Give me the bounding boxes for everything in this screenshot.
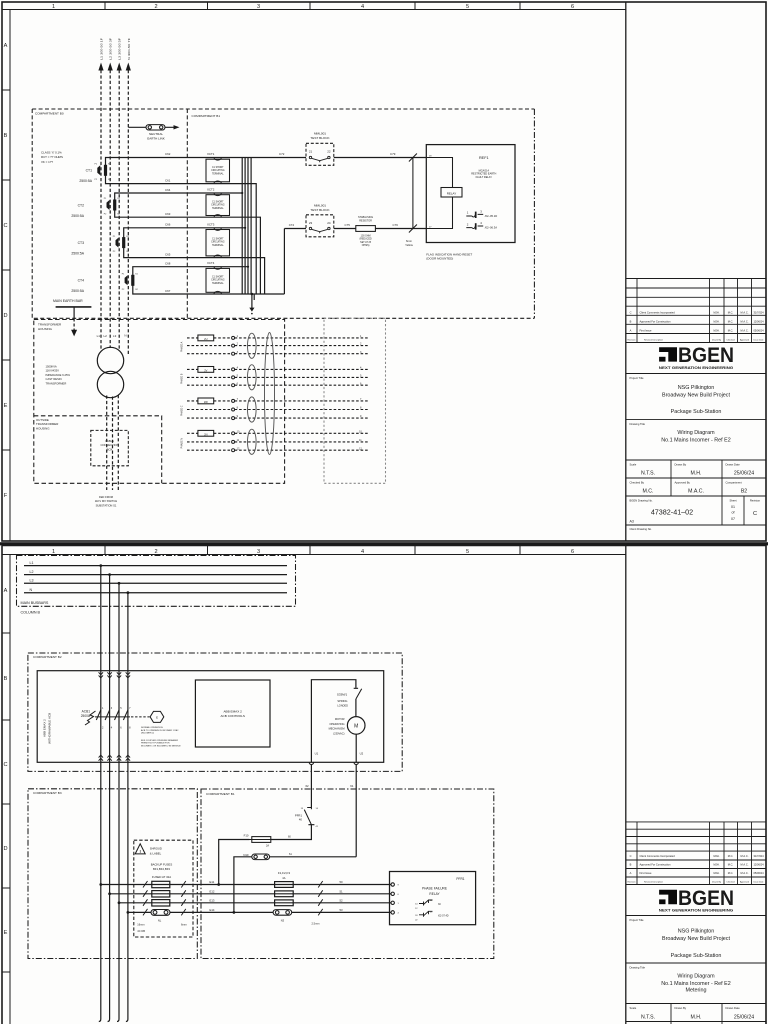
svg-text:D: D <box>3 846 7 852</box>
svg-text:L3: L3 <box>113 334 117 338</box>
svg-text:2V: 2V <box>204 369 207 373</box>
svg-text:NSG Pilkington: NSG Pilkington <box>678 929 715 935</box>
column tick 4/5 <box>414 2 416 10</box>
svg-text:2: 2 <box>154 4 157 10</box>
spring charge switch <box>354 688 362 699</box>
svg-text:PERMIT NOT POSSIBLE FOR: PERMIT NOT POSSIBLE FOR <box>141 743 170 745</box>
svg-text:COLUMN B: COLUMN B <box>21 610 41 614</box>
svg-text:61: 61 <box>350 784 354 788</box>
svg-text:NSG Pilkington: NSG Pilkington <box>678 385 715 391</box>
svg-text:XCT1: XCT1 <box>207 152 215 156</box>
svg-text:No.1 Mains Incomer - Ref E2: No.1 Mains Incomer - Ref E2 <box>661 981 731 987</box>
cable connection box <box>91 430 129 465</box>
svg-text:C1 SHORT: C1 SHORT <box>212 202 224 204</box>
svg-text:PHASE C: PHASE C <box>181 405 184 416</box>
svg-text:Drawn Date: Drawn Date <box>726 463 741 467</box>
motor to U2 wire <box>355 734 357 762</box>
short circuiting terminal block 1 <box>206 158 230 184</box>
svg-text:40: 40 <box>299 818 303 822</box>
svg-text:CONNECTION: CONNECTION <box>100 443 118 447</box>
title block section lines <box>626 374 766 526</box>
wire 61 from U2 <box>355 765 357 857</box>
ACB note text 2 <box>141 739 181 748</box>
terminal U1 <box>309 762 313 764</box>
compartment B2 box <box>28 653 402 771</box>
column tick 1/2 <box>104 2 106 10</box>
svg-text:COMPARTMENT B2: COMPARTMENT B2 <box>33 655 62 659</box>
CT1 secondary winding <box>104 165 107 176</box>
row tick A/B <box>2 89 10 91</box>
svg-text:22: 22 <box>327 149 331 153</box>
junction dot E14 tap <box>127 911 130 914</box>
wire row 8 <box>187 409 368 411</box>
svg-text:51: 51 <box>340 889 344 893</box>
svg-text:C63: C63 <box>165 212 171 216</box>
CT class note <box>41 151 63 164</box>
CT3 secondary winding <box>122 237 125 248</box>
svg-text:Wiring Diagram: Wiring Diagram <box>677 430 715 436</box>
fed from note <box>95 495 118 507</box>
svg-text:HOUSING: HOUSING <box>36 426 50 430</box>
svg-text:24: 24 <box>327 221 331 225</box>
svg-text:SUBSTATION S1: SUBSTATION S1 <box>96 503 117 507</box>
XCT terminal labels <box>207 152 215 265</box>
compartment B0/B1 top boundary <box>32 108 534 110</box>
svg-text:OHMS): OHMS) <box>362 245 370 247</box>
wire row 9 <box>187 417 368 419</box>
svg-text:C64: C64 <box>165 188 171 192</box>
svg-text:C1 SHORT: C1 SHORT <box>212 239 224 241</box>
svg-text:MML001: MML001 <box>314 132 326 136</box>
svg-text:2W: 2W <box>204 400 208 404</box>
fuse F3 <box>275 900 294 906</box>
svg-text:Drawn By: Drawn By <box>712 339 722 342</box>
border frame page 1 column strip <box>2 9 626 11</box>
primary cable L1 (dashed) <box>106 396 108 491</box>
row tick D/E p2 <box>2 887 10 889</box>
wire row 1 <box>187 337 368 339</box>
svg-text:4A: 4A <box>282 876 285 880</box>
svg-text:B: B <box>630 863 632 867</box>
svg-text:(230VAC): (230VAC) <box>333 731 344 735</box>
svg-text:Client Drawing No.: Client Drawing No. <box>630 527 653 531</box>
svg-text:IMPEDANCE 6.25%: IMPEDANCE 6.25% <box>46 373 71 377</box>
svg-text:E: E <box>4 930 8 936</box>
svg-text:6mm: 6mm <box>406 239 413 243</box>
REF1 description <box>471 169 496 179</box>
junction dots on C62 bus <box>241 192 249 268</box>
bundle vertical 3 <box>247 158 249 295</box>
cable 6mm yellow grouping line <box>412 158 414 229</box>
column tick 5/6 p2 <box>519 546 521 555</box>
svg-text:F1,F2,F3: F1,F2,F3 <box>278 871 291 875</box>
svg-text:C76: C76 <box>393 223 399 227</box>
compartment B1 box p2 <box>201 789 494 959</box>
svg-text:/02–05.1D: /02–05.1D <box>485 214 497 218</box>
cable screen ellipse group C <box>248 397 257 422</box>
svg-text:M.C.: M.C. <box>643 489 654 495</box>
svg-text:Sheet: Sheet <box>729 499 736 503</box>
svg-text:Drawn Date: Drawn Date <box>726 1006 741 1010</box>
bundle vertical 2 <box>244 158 246 295</box>
svg-text:TRANSFORMER: TRANSFORMER <box>46 381 67 385</box>
svg-text:MECHANISM: MECHANISM <box>329 727 345 731</box>
svg-text:TERMINAL: TERMINAL <box>212 207 224 210</box>
wire row 10 <box>187 432 368 434</box>
svg-text:Yellow: Yellow <box>405 243 413 247</box>
cable screen ellipse group B <box>248 365 257 390</box>
wire labels E11-E14 <box>210 880 215 912</box>
row tick D/E <box>2 359 10 361</box>
svg-text:Issue Date: Issue Date <box>754 339 765 342</box>
svg-text:31/7/024: 31/7/024 <box>753 311 764 315</box>
compartment B0/B1 bottom boundary <box>34 317 535 319</box>
svg-text:Scale: Scale <box>630 463 637 467</box>
svg-text:Approved For Construction: Approved For Construction <box>640 320 672 324</box>
svg-text:S33M/1: S33M/1 <box>337 693 348 697</box>
svg-text:TRANSFORMER: TRANSFORMER <box>38 323 62 327</box>
svg-text:M.H.: M.H. <box>691 471 702 477</box>
ACB1 pole terminal numbers bottom <box>102 727 131 730</box>
wire row 12 <box>187 449 368 451</box>
svg-text:B2: B2 <box>741 489 747 495</box>
svg-text:MJH.: MJH. <box>713 329 719 333</box>
wire row E13 <box>119 902 391 904</box>
ACB1 pole 3 blade <box>115 710 120 720</box>
wire C63 : CT2 S2 return <box>115 209 261 294</box>
svg-text:M.A.C.: M.A.C. <box>741 311 749 315</box>
junction dot N tap <box>127 591 130 594</box>
svg-text:M.C.: M.C. <box>728 329 734 333</box>
wire row 2 <box>187 345 368 347</box>
svg-text:TEST BLOCK: TEST BLOCK <box>310 208 330 212</box>
svg-text:Metering: Metering <box>686 988 707 994</box>
svg-text:N3: N3 <box>281 919 285 923</box>
ACB1 racking handle symbol <box>85 711 96 725</box>
terminal numbers left set <box>237 335 240 450</box>
svg-text:4: 4 <box>361 4 364 10</box>
svg-text:MOTOR: MOTOR <box>335 717 345 721</box>
svg-text:MJH.: MJH. <box>713 320 719 324</box>
svg-text:MJH.: MJH. <box>713 863 719 867</box>
svg-text:M.C.: M.C. <box>728 871 734 875</box>
svg-text:2500:5A: 2500:5A <box>71 214 84 218</box>
svg-text:COMPARTMENT B0: COMPARTMENT B0 <box>35 112 64 116</box>
svg-text:MJH.: MJH. <box>713 311 719 315</box>
column tick 5/6 <box>519 2 521 10</box>
wire C66 : CT3 S1 <box>124 228 245 247</box>
svg-text:C: C <box>753 511 757 517</box>
junction dot N10 drop on E14 <box>233 911 236 914</box>
PFR1 terminals <box>391 883 394 914</box>
svg-text:16mm: 16mm <box>137 923 144 927</box>
ACB1 linkage bar <box>95 716 130 718</box>
svg-text:L3: L3 <box>30 579 34 583</box>
left ruler inner line p2 <box>9 555 11 1024</box>
svg-text:Revision Description: Revision Description <box>644 881 664 884</box>
svg-text:of: of <box>732 511 735 515</box>
compartment B0/B1 divider <box>186 109 188 318</box>
ACB1 withdrawable chevrons top <box>99 672 131 678</box>
svg-text:Checked: Checked <box>726 882 735 884</box>
svg-text:47382-41–02: 47382-41–02 <box>651 508 693 517</box>
row tick A/B p2 <box>2 632 10 634</box>
svg-text:RCT = ?? OHMS: RCT = ?? OHMS <box>41 155 63 159</box>
svg-text:C: C <box>3 762 7 768</box>
svg-text:SPRING: SPRING <box>337 699 347 703</box>
svg-text:Project Title: Project Title <box>630 376 645 380</box>
BGEN logo icon p2 <box>659 890 677 904</box>
svg-text:C: C <box>630 311 632 315</box>
outside transformer housing box <box>34 416 162 484</box>
svg-text:50: 50 <box>340 880 344 884</box>
svg-text:& LABEL: & LABEL <box>150 851 162 855</box>
svg-text:Approved: Approved <box>740 339 750 342</box>
fuse F1 <box>275 882 294 888</box>
svg-text:B: B <box>630 320 632 324</box>
svg-text:C66: C66 <box>165 223 171 227</box>
svg-text:2: 2 <box>154 549 157 555</box>
svg-text:Drawing Title: Drawing Title <box>630 422 646 426</box>
svg-text:Drawn By: Drawn By <box>712 881 722 884</box>
svg-text:N: N <box>124 334 126 338</box>
svg-text:B: B <box>4 133 8 139</box>
svg-text:NEXT GENERATION ENGINEERING: NEXT GENERATION ENGINEERING <box>659 909 734 913</box>
CT4 secondary winding <box>131 275 134 286</box>
short circuiting terminal block 4 <box>206 267 230 294</box>
svg-text:TERMINAL: TERMINAL <box>212 244 224 247</box>
junction dot L1 tap <box>99 564 102 567</box>
svg-text:BGEN Drawing No.: BGEN Drawing No. <box>630 499 653 503</box>
junction dot E12 tap <box>108 892 111 895</box>
wire F10 to E11 <box>219 840 250 885</box>
svg-text:TEST BLOCK: TEST BLOCK <box>310 136 330 140</box>
column tick 2/3 <box>207 2 209 10</box>
revision table grid <box>626 279 766 343</box>
earth stub <box>251 294 253 308</box>
wire 62 from U1 <box>310 765 312 808</box>
svg-text:ACB CONTROLS: ACB CONTROLS <box>220 714 244 718</box>
svg-text:INCOMER 1 OR INCOMER 2 IN SERV: INCOMER 1 OR INCOMER 2 IN SERVICE <box>141 745 181 747</box>
svg-text:Revision: Revision <box>628 340 637 342</box>
svg-text:3: 3 <box>257 549 260 555</box>
svg-text:E13: E13 <box>210 898 215 902</box>
wire C62 : CT1 S1 to test block <box>106 158 307 176</box>
column tick 4/5 p2 <box>414 546 416 555</box>
svg-text:M.H.: M.H. <box>691 1015 702 1021</box>
svg-text:Client Comments Incorporated: Client Comments Incorporated <box>640 311 676 315</box>
row tick C/D <box>2 269 10 271</box>
svg-text:ABB EMAX 2: ABB EMAX 2 <box>223 710 242 714</box>
svg-text:BGEN: BGEN <box>678 343 734 367</box>
link 2U <box>198 335 214 341</box>
CT2 secondary winding <box>113 200 116 211</box>
svg-text:MJH.: MJH. <box>713 854 719 858</box>
svg-text:Checked By: Checked By <box>630 481 645 485</box>
fuse F2 <box>275 891 294 897</box>
fuse F10 <box>250 837 274 843</box>
primary cable L3 (dashed) <box>117 395 119 490</box>
wire row 3 <box>187 353 368 355</box>
wire C79 test block to REF1 <box>334 157 427 159</box>
svg-text:OPERATING: OPERATING <box>329 722 344 726</box>
svg-text:MML001: MML001 <box>314 203 326 207</box>
wire row 7 <box>187 400 368 402</box>
svg-text:A: A <box>630 329 632 333</box>
svg-text:EARTH LINK: EARTH LINK <box>147 137 165 141</box>
svg-text:Package Sub-Station: Package Sub-Station <box>671 409 722 415</box>
svg-text:12/06/24: 12/06/24 <box>753 863 764 867</box>
svg-text:CT3: CT3 <box>78 241 85 245</box>
svg-text:L2: L2 <box>30 570 34 574</box>
svg-text:A: A <box>4 43 8 49</box>
svg-text:PHASE FAILURE: PHASE FAILURE <box>422 886 447 890</box>
svg-text:Drawn By: Drawn By <box>675 1006 687 1010</box>
svg-text:M.A.C.: M.A.C. <box>741 854 749 858</box>
cable slashes 2.5mm <box>318 881 323 915</box>
svg-text:C1 SHORT: C1 SHORT <box>212 277 224 279</box>
svg-text:100 OHM: 100 OHM <box>361 236 371 238</box>
svg-text:LOADED: LOADED <box>337 703 348 707</box>
test block MML001 (23/24) <box>306 203 334 237</box>
svg-text:A: A <box>4 588 8 594</box>
svg-text:2U: 2U <box>204 337 207 341</box>
marshalling box (light dashed) <box>324 318 386 483</box>
svg-text:C62: C62 <box>165 152 171 156</box>
CT1 primary mark <box>97 165 100 175</box>
busbar L1 <box>24 565 287 567</box>
svg-text:23: 23 <box>309 221 313 225</box>
svg-text:FUSED AT 32A: FUSED AT 32A <box>152 875 171 879</box>
wire C74 riser from C67 <box>283 229 285 295</box>
svg-text:MAIN BUSBARS: MAIN BUSBARS <box>21 601 49 605</box>
svg-text:Drawn By: Drawn By <box>675 463 687 467</box>
short circuiting terminal block 2 <box>206 193 230 217</box>
relay REF1 box <box>426 145 515 243</box>
svg-text:C: C <box>630 854 632 858</box>
fuse BF2 <box>152 891 170 897</box>
CT1 pin labels <box>95 164 112 181</box>
svg-text:Approved For Construction: Approved For Construction <box>640 863 672 867</box>
neutral earth link wire <box>128 126 175 128</box>
svg-text:1: 1 <box>52 549 55 555</box>
REF1 contact 2-4 <box>466 223 483 229</box>
svg-text:2500:5A: 2500:5A <box>71 289 84 293</box>
svg-text:COMPARTMENT B1: COMPARTMENT B1 <box>206 792 235 796</box>
svg-text:BOX: BOX <box>107 447 113 451</box>
svg-text:11KV/433V: 11KV/433V <box>46 369 60 373</box>
link 2N <box>198 430 214 436</box>
svg-text:M.C.: M.C. <box>728 311 734 315</box>
page separator band <box>0 542 768 545</box>
svg-text:REF1: REF1 <box>479 156 489 160</box>
svg-text:2500A: 2500A <box>81 714 91 718</box>
arrow head L2 <box>108 63 113 71</box>
svg-text:62: 62 <box>306 784 310 788</box>
svg-text:CT1: CT1 <box>86 169 93 173</box>
svg-text:Checked: Checked <box>726 340 735 342</box>
wire labels 50-53 <box>340 880 344 912</box>
compartment B0 left edge <box>31 109 33 318</box>
border frame page 2 outer <box>2 546 766 1024</box>
wire C68 : CT4 S1 <box>133 267 248 285</box>
CT2 pin labels <box>104 198 121 215</box>
row tick B/C <box>2 179 10 181</box>
svg-text:Wiring Diagram: Wiring Diagram <box>677 974 715 980</box>
svg-text:First Issue: First Issue <box>640 871 653 875</box>
terminal rows group A <box>187 338 368 450</box>
svg-text:L2: L2 <box>104 334 108 338</box>
junction dot F10 drop on E11 <box>217 883 220 886</box>
svg-text:C74: C74 <box>289 223 295 227</box>
svg-text:E14: E14 <box>210 908 215 912</box>
ACB1 withdrawable chevrons bottom <box>99 755 131 761</box>
svg-text:N.T.S.: N.T.S. <box>641 1015 655 1021</box>
svg-text:31/7/024: 31/7/024 <box>753 854 764 858</box>
transformer T1 primary circle <box>97 347 123 373</box>
svg-text:ACB1: ACB1 <box>82 710 91 714</box>
neutral link N10 <box>252 854 270 860</box>
junction dot L2 tap <box>108 573 111 576</box>
ACB cubicle box <box>37 671 384 763</box>
scale row dividers p2 <box>671 1004 722 1024</box>
svg-text:Approved: Approved <box>740 881 750 884</box>
BGEN logo icon <box>659 347 677 361</box>
primary cable L2 (dashed) <box>112 397 114 491</box>
svg-text:(DOOR MOUNTED): (DOOR MOUNTED) <box>426 257 453 261</box>
shroud box <box>134 840 193 937</box>
core slash bottom <box>409 225 417 233</box>
wire row E14 <box>128 911 391 913</box>
transformer rating note <box>46 365 71 386</box>
svg-text:05/06/24: 05/06/24 <box>753 329 764 333</box>
svg-text:CIRCUITING: CIRCUITING <box>211 242 225 244</box>
wire 61 to N10 <box>270 856 357 858</box>
motor circuit wire to motor <box>355 699 357 717</box>
arrow head N <box>126 63 131 71</box>
svg-text:RESISTOR: RESISTOR <box>359 219 372 222</box>
compartment B3 box <box>28 789 197 959</box>
svg-text:/02-07.4D: /02-07.4D <box>438 914 449 917</box>
svg-text:HOUSING: HOUSING <box>38 327 53 331</box>
riser N p2 <box>126 593 128 1022</box>
svg-text:5: 5 <box>466 549 469 555</box>
ACB1 pole 4 blade <box>123 710 128 720</box>
svg-text:CLASS 'X' 0.1%: CLASS 'X' 0.1% <box>41 151 62 155</box>
PFR1 aux contact <box>304 808 314 825</box>
svg-text:2500:5A: 2500:5A <box>79 179 92 183</box>
svg-text:Client Comments Incorporated: Client Comments Incorporated <box>640 854 676 858</box>
wire C76 <box>375 228 426 230</box>
junction dot earth stub <box>251 293 254 296</box>
svg-text:Broadway New Build Project: Broadway New Build Project <box>662 936 731 942</box>
PFR1 contact 24-21 <box>419 911 433 917</box>
motor M <box>347 717 365 735</box>
REF1 internal wiring <box>426 158 452 229</box>
svg-text:L3 300-50 5F: L3 300-50 5F <box>118 37 122 60</box>
svg-text:L1 300-50 1F: L1 300-50 1F <box>100 37 104 60</box>
sheet/revision dividers <box>722 496 744 525</box>
link 2W <box>198 398 214 404</box>
wire C61 : CT1 S2 return <box>106 175 257 294</box>
svg-text:XCT3: XCT3 <box>207 222 215 226</box>
svg-text:CIRCUITING: CIRCUITING <box>211 280 225 282</box>
svg-text:(INCOMER 2): (INCOMER 2) <box>141 733 154 735</box>
svg-text:4: 4 <box>361 549 364 555</box>
svg-text:12/06/24: 12/06/24 <box>753 320 764 324</box>
interlock hexagon <box>150 711 164 722</box>
linkage to interlock (dashed) <box>131 716 150 718</box>
